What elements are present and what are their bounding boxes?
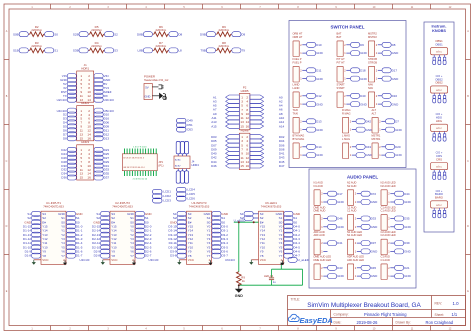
svg-text:MSTR1: MSTR1 [372, 137, 381, 141]
svg-text:GND: GND [316, 77, 324, 81]
rotary encoder BARO [431, 189, 448, 218]
svg-text:DME AUD LED: DME AUD LED [314, 258, 332, 262]
svg-text:C1 AUD LED: C1 AUD LED [381, 209, 396, 213]
switch SW22 ADF AUD [314, 230, 328, 255]
svg-text:A4 A5: A4 A5 [175, 158, 181, 161]
net flag S0B [13, 32, 28, 37]
net flag S0 [66, 220, 80, 225]
svg-text:GND: GND [392, 51, 400, 55]
svg-text:D9: D9 [241, 32, 245, 36]
svg-text:D17: D17 [337, 192, 343, 196]
svg-text:HDR2: HDR2 [81, 101, 89, 105]
svg-text:D21: D21 [404, 266, 410, 270]
wire GND pin to plug symbol [152, 95, 159, 97]
svg-text:D11: D11 [316, 69, 322, 73]
Instrum. KNOBS group box [424, 22, 454, 232]
SWITCH PANEL group box [289, 21, 406, 168]
net flag D36 [61, 175, 76, 180]
svg-text:Company:: Company: [334, 313, 349, 317]
svg-text:S1B: S1B [13, 49, 19, 53]
resistor R9 220Ohm [216, 25, 232, 37]
svg-text:1 3 5 7 9 11 13: 1 3 5 7 9 11 13 [133, 147, 147, 149]
VCC wire for U2-INPUT2 [103, 259, 110, 261]
svg-text:74HC4067D,653: 74HC4067D,653 [112, 205, 133, 209]
net port D47 [250, 164, 285, 168]
net flag D3-9 [170, 249, 186, 254]
title block [288, 296, 466, 326]
switch SW12 ALT [372, 108, 386, 133]
svg-text:D43: D43 [366, 145, 372, 149]
net flag D30 [61, 163, 76, 168]
svg-text:GN 36 37 38 39 40 41 4: GN 36 37 38 39 40 41 4 [123, 167, 145, 169]
net flag U3C1I0 [94, 97, 114, 102]
svg-text:a b c: a b c [436, 89, 442, 92]
svg-text:GND: GND [235, 294, 243, 298]
svg-text:L MAG: L MAG [342, 137, 350, 141]
switch SW27 C1 AUD [381, 255, 395, 280]
net flag D35 [395, 216, 410, 221]
net label U_aLED [288, 257, 310, 262]
net port D08 [250, 147, 285, 151]
net flag D24 [61, 151, 76, 156]
svg-text:SWITCH PANEL: SWITCH PANEL [331, 25, 365, 30]
net flag D4-0 [284, 224, 300, 229]
net flag LCD4 [177, 187, 196, 192]
net flag GND [382, 76, 399, 81]
svg-text:U3-INPUT3: U3-INPUT3 [192, 201, 207, 205]
switch SW24 C2 AUD LED [381, 230, 396, 255]
svg-text:D46: D46 [211, 164, 217, 168]
switch SW3 MSTR2 [368, 32, 382, 57]
svg-text:HDR4: HDR4 [192, 163, 200, 167]
resistor R4 220Ohm [88, 41, 104, 53]
power plug symbol pin 2 [160, 93, 167, 99]
net flag GND [382, 102, 399, 107]
svg-text:U3C1I0: U3C1I0 [149, 258, 159, 262]
svg-text:D45: D45 [371, 266, 377, 270]
net flag S0 [284, 220, 298, 225]
svg-text:GND: GND [371, 250, 379, 254]
EasyEDA logo [288, 314, 333, 325]
resistor R2 220Ohm [28, 25, 44, 37]
svg-text:S0: S0 [54, 32, 58, 36]
net flag D26 [61, 155, 76, 160]
net flag D28 [61, 159, 76, 164]
net flag GND [395, 224, 412, 229]
net flag D3-7 [212, 253, 228, 258]
net flag VIN [62, 74, 77, 79]
svg-text:(P1): (P1) [158, 164, 163, 168]
net flag RX [94, 93, 108, 98]
net flag D35 [94, 171, 109, 176]
svg-text:D72: D72 [371, 192, 377, 196]
net flag D14 [307, 144, 322, 149]
svg-text:D8B: D8B [137, 32, 143, 36]
net flag U2C1I0 [57, 97, 77, 102]
net flag S2B [73, 32, 88, 37]
net flag GND [307, 153, 324, 158]
ground symbol under U1-INPUT1 VCC side [32, 260, 36, 265]
net flag D1-14 [23, 228, 41, 233]
net flag D22 [61, 147, 76, 152]
net flag D1-13 [23, 232, 41, 237]
switch SW6 STROB [368, 57, 382, 82]
switch SW2 BAT [337, 32, 351, 57]
net flag RST [61, 89, 77, 94]
net flag S3B [73, 48, 88, 53]
net flag D42 [356, 119, 371, 124]
svg-text:D37: D37 [371, 241, 377, 245]
svg-text:GND: GND [360, 51, 368, 55]
svg-text:LAND: LAND [293, 86, 300, 90]
net flag D2-5 [135, 245, 151, 250]
switch SW10 TAXI [293, 108, 307, 133]
resistor R3 220Ohm [28, 41, 44, 53]
svg-text:16: 16 [87, 176, 91, 180]
net flag D7 [386, 119, 400, 124]
net flag D23 [94, 147, 109, 152]
net flag U4C1I0 [57, 108, 77, 113]
net flag D10 [307, 42, 322, 47]
svg-text:D49: D49 [187, 119, 193, 123]
svg-text:D40: D40 [360, 94, 366, 98]
net flag D2-10 [92, 245, 110, 250]
net flag S1 [253, 213, 258, 215]
switch SW19 DME AUD [314, 205, 328, 230]
svg-text:S0B: S0B [13, 32, 19, 36]
net flag D31 [94, 163, 109, 168]
net flag GND [382, 51, 399, 56]
resistor R9 1k vertical [237, 272, 246, 286]
svg-text:N2 AUD LED: N2 AUD LED [381, 184, 396, 188]
net flag 5V [94, 81, 107, 86]
svg-text:2 4 6 8 10 12 14: 2 4 6 8 10 12 14 [133, 179, 148, 181]
svg-text:D: D [467, 225, 469, 228]
net flag D16 [94, 116, 109, 121]
svg-text:GND: GND [360, 77, 368, 81]
net flag LCD6 [177, 196, 196, 201]
svg-text:220Ohm: 220Ohm [91, 44, 102, 48]
connector P2 HDR5 [239, 86, 250, 130]
net flag U5C1I0 [94, 108, 114, 113]
IC U1-INPUT1 74HC4067D [41, 201, 66, 264]
net flag D1-15 [23, 224, 41, 229]
net port A4 [250, 103, 283, 107]
net flag D16 [382, 93, 397, 98]
net flag GND [328, 224, 345, 229]
svg-text:U2-INPUT2: U2-INPUT2 [115, 201, 130, 205]
net port D46 [211, 164, 239, 168]
net flag D29 [94, 159, 109, 164]
svg-text:S1: S1 [54, 49, 58, 53]
switch SW9 NAV [368, 83, 382, 108]
svg-text:74HC4067D,653: 74HC4067D,653 [43, 205, 64, 209]
net flag T9 [232, 48, 245, 53]
svg-text:220Ohm: 220Ohm [31, 28, 42, 32]
switch SW23 N1 AUD LED [347, 230, 362, 255]
net flag D2-3 [135, 236, 151, 241]
net port A9 [213, 112, 239, 116]
net flag S0 [45, 32, 59, 37]
svg-text:GND: GND [404, 274, 412, 278]
svg-text:Ron Craighead: Ron Craighead [426, 320, 454, 325]
svg-text:HDR5: HDR5 [241, 89, 249, 93]
svg-text:D37: D37 [104, 176, 110, 180]
svg-text:LCD5: LCD5 [187, 192, 195, 196]
net port A3 [213, 99, 239, 103]
net flag GND [170, 220, 186, 225]
net flag D17 [328, 191, 343, 196]
net flag D2-1 [135, 228, 151, 233]
net flag D4-5 [284, 245, 300, 250]
connector HDR2 [77, 101, 94, 141]
net flag S0 [212, 220, 226, 225]
rotary encoder OBS2 [431, 74, 448, 103]
ground symbol under U1-INPUT1 pin 2 [63, 260, 67, 265]
net flag D3-14 [168, 228, 186, 233]
switch SW20 C1 AUD [347, 205, 361, 230]
svg-text:D3-8: D3-8 [170, 254, 177, 258]
svg-text:GND: GND [404, 225, 412, 229]
net flag S0 [135, 220, 149, 225]
net flag D46 [328, 216, 343, 221]
svg-text:OBS1: OBS1 [435, 42, 443, 46]
svg-text:LCD1: LCD1 [163, 190, 171, 194]
svg-text:U_aLED: U_aLED [298, 258, 310, 262]
net flag D1-4 [66, 241, 82, 246]
net flag D34 [61, 171, 76, 176]
svg-text:1.0: 1.0 [453, 301, 460, 306]
capacitor C4 1u [264, 274, 276, 284]
svg-text:Drawn By:: Drawn By: [396, 321, 411, 325]
net port A11 [211, 116, 239, 120]
svg-text:D41: D41 [337, 241, 343, 245]
svg-text:74HC4067D,653: 74HC4067D,653 [189, 205, 210, 209]
net flag D33 [94, 167, 109, 172]
svg-text:D53: D53 [187, 128, 193, 132]
net flag S2 [173, 216, 186, 221]
net flag D10 [94, 112, 109, 117]
rotary encoder HDG [431, 112, 448, 141]
svg-text:GND: GND [316, 128, 324, 132]
net flag S2 [105, 32, 119, 37]
resistor R5 220Ohm [88, 25, 104, 37]
svg-text:BAT: BAT [337, 35, 342, 39]
net flag D1-8 [25, 253, 41, 258]
svg-text:220Ohm: 220Ohm [156, 44, 167, 48]
net flag D7 [63, 132, 76, 137]
svg-text:START: START [337, 86, 346, 90]
net flag D6 [63, 128, 76, 133]
svg-text:HDR6: HDR6 [241, 129, 249, 133]
net flag LCD2 [153, 194, 172, 199]
svg-text:2019-08-26: 2019-08-26 [357, 320, 379, 325]
svg-text:a b c: a b c [436, 51, 442, 54]
junction at R9 branch [238, 221, 240, 223]
net flag D1-10 [23, 245, 41, 250]
net flag D3-2 [212, 232, 228, 237]
switch SW25 DME AUD LED [314, 255, 332, 280]
svg-text:GND: GND [395, 128, 403, 132]
svg-text:GND: GND [337, 200, 345, 204]
net flag VIN [94, 74, 109, 79]
VCC wire for U1-INPUT1 [34, 259, 41, 261]
wire 5V pin to plug symbol [152, 86, 158, 88]
svg-text:D13: D13 [316, 120, 322, 124]
net flag D13 [307, 119, 322, 124]
net flag D2-12 [92, 236, 110, 241]
net flag D3-12 [168, 236, 186, 241]
svg-text:ADF AUD LED: ADF AUD LED [347, 258, 364, 262]
net flag D49 [177, 118, 194, 123]
net flag D53 [177, 127, 194, 132]
net flag D18 [351, 68, 366, 73]
net flag LCD3 [153, 198, 172, 203]
svg-text:D35: D35 [404, 217, 410, 221]
svg-text:D42: D42 [366, 120, 372, 124]
net port A14 [250, 124, 285, 128]
net flag 5V [63, 81, 76, 86]
svg-text:GND: GND [371, 200, 379, 204]
net flag D32 [61, 167, 76, 172]
svg-text:D16: D16 [392, 94, 398, 98]
net port A8 [250, 112, 283, 116]
svg-text:D20: D20 [395, 145, 401, 149]
net flag D4-1 [284, 228, 300, 233]
svg-text:L8B: L8B [138, 49, 143, 53]
svg-text:D39: D39 [404, 241, 410, 245]
net flag D2-15 [92, 224, 110, 229]
net flag S1 [284, 216, 298, 221]
svg-text:220Ohm: 220Ohm [156, 28, 167, 32]
wire R9 to E# junction [238, 222, 240, 272]
net flag D1-1 [66, 228, 82, 233]
net flag D40 [351, 93, 366, 98]
svg-text:JP1: JP1 [158, 160, 163, 164]
switch SW16 N1 AUD [314, 181, 328, 206]
svg-text:220Ohm: 220Ohm [91, 28, 102, 32]
svg-text:VCC: VCC [260, 258, 267, 262]
net flag GND [361, 200, 378, 205]
net flag S2 [96, 216, 109, 221]
net flag D27 [94, 155, 109, 160]
net flag GND [328, 200, 345, 205]
net flag GND [135, 211, 152, 216]
net flag GND [307, 76, 324, 81]
net flag 7V3 [94, 85, 109, 90]
net flag D4-3 [284, 236, 300, 241]
AUDIO PANEL group box [309, 169, 416, 288]
net flag GND [395, 200, 412, 205]
svg-text:VCC: VCC [188, 258, 195, 262]
net flag GND [386, 127, 403, 132]
svg-text:GND: GND [371, 274, 379, 278]
connector HDR6 [239, 129, 250, 170]
svg-text:D6: D6 [360, 43, 364, 47]
net flag L8 [169, 48, 182, 53]
net flag D11 [94, 128, 109, 133]
svg-text:D8: D8 [178, 32, 182, 36]
net port D44 [211, 160, 239, 164]
net flag D11 [307, 68, 322, 73]
net flag S1B [13, 48, 28, 53]
net flag GND [94, 78, 111, 83]
net flag D2-4 [135, 241, 151, 246]
net flag D3 [63, 116, 76, 121]
switch SW4 FUEL P [293, 57, 307, 82]
switch SW26 ADF AUD LED [347, 255, 364, 280]
net flag D2 [63, 112, 76, 117]
svg-text:U_allLED: U_allLED [234, 218, 246, 222]
net port D09 [211, 147, 239, 151]
svg-text:D44: D44 [404, 192, 410, 196]
svg-text:LCD6: LCD6 [187, 197, 195, 201]
svg-text:S2: S2 [114, 32, 118, 36]
net flag D3-11 [169, 241, 187, 246]
net port D02 [250, 135, 285, 139]
net flag GND [328, 274, 345, 279]
svg-text:HDR1: HDR1 [81, 66, 89, 70]
net flag D44 [395, 191, 410, 196]
net flag D3-0 [212, 224, 228, 229]
net flag D2-9 [94, 249, 110, 254]
net port A6 [250, 107, 283, 111]
net flag S2 [253, 217, 258, 219]
net flag D33 [361, 216, 376, 221]
svg-text:Sheet:: Sheet: [435, 313, 445, 317]
svg-text:GND: GND [392, 102, 400, 106]
svg-text:C: C [6, 160, 8, 163]
svg-text:U6-LED1: U6-LED1 [265, 201, 277, 205]
wire horizontal upper LED net [272, 268, 303, 270]
svg-text:D13: D13 [104, 136, 110, 140]
net flag GND [212, 211, 229, 216]
net flag D3-4 [212, 241, 228, 246]
net flag D9 [232, 32, 246, 37]
svg-text:MSTR2: MSTR2 [368, 35, 377, 39]
svg-text:D14: D14 [316, 145, 322, 149]
svg-text:D8: D8 [392, 43, 396, 47]
net flag D3-5 [212, 245, 228, 250]
net flag S2 [27, 216, 40, 221]
svg-text:HDG: HDG [436, 119, 442, 123]
power plug symbol pin 1 [159, 85, 164, 89]
net flag S1 [96, 211, 109, 216]
net flag GND [356, 153, 373, 158]
svg-text:GND: GND [316, 102, 324, 106]
svg-text:D2-8: D2-8 [94, 254, 101, 258]
svg-text:U2C1I0: U2C1I0 [80, 258, 90, 262]
net flag D37 [94, 175, 109, 180]
svg-text:GND: GND [395, 153, 403, 157]
net flag GND [361, 224, 378, 229]
net flag D3-10 [168, 245, 186, 250]
net flag GND [395, 249, 412, 254]
net flag D13 [94, 136, 109, 141]
connector HDR3 [77, 140, 94, 180]
VCC wire for U3-INPUT3 [179, 259, 186, 261]
net flag GND [395, 274, 412, 279]
net flag D8 [382, 42, 396, 47]
net flag D3-15 [168, 224, 186, 229]
svg-text:15: 15 [240, 164, 244, 168]
svg-text:D7: D7 [395, 120, 399, 124]
net flag D1-6 [66, 249, 82, 254]
svg-text:74HC4067D,653: 74HC4067D,653 [261, 205, 282, 209]
svg-text:L8: L8 [178, 49, 182, 53]
svg-text:N1 AUD LED: N1 AUD LED [347, 233, 362, 237]
net flag D4-2 [284, 232, 300, 237]
